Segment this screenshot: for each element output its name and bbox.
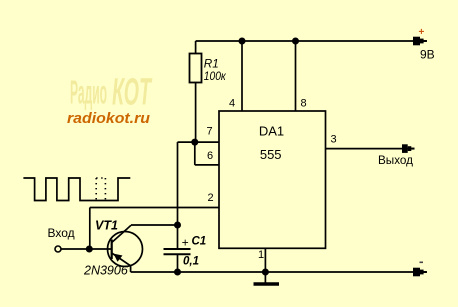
wire collector — [131, 224, 178, 226]
svg-text:КОТ: КОТ — [112, 72, 152, 114]
input terminal — [55, 246, 61, 252]
wire node to collector/C1 — [177, 142, 179, 249]
wire R1 bottom — [195, 83, 197, 143]
node pin7 junction — [191, 139, 198, 146]
svg-text:4: 4 — [229, 98, 235, 110]
svg-text:2N3906: 2N3906 — [83, 264, 128, 278]
node input junction — [86, 246, 93, 253]
label - (minus) — [420, 261, 424, 263]
svg-text:R1: R1 — [204, 57, 219, 70]
input pulse waveform — [23, 178, 130, 201]
svg-text:6: 6 — [207, 150, 213, 162]
wire pin6 stub — [195, 164, 219, 166]
wire R1 top — [195, 41, 197, 54]
wire input to base — [61, 248, 111, 250]
wire top power rail — [196, 40, 427, 42]
svg-text:2: 2 — [208, 192, 214, 204]
svg-text:1: 1 — [258, 249, 264, 261]
transistor VT1 (2N3906, PNP) — [108, 225, 143, 272]
node collector junction — [174, 222, 181, 229]
wire pin4 — [241, 41, 243, 111]
svg-text:555: 555 — [260, 147, 282, 162]
resistor R1 — [190, 54, 202, 83]
wire ground rail — [131, 271, 427, 273]
wire pin7 to pin6 — [194, 142, 196, 165]
wire pin1 — [264, 248, 266, 272]
IC DA1 (555 timer) — [219, 111, 326, 248]
node rail junction (pin 8) — [292, 38, 299, 45]
svg-text:Выход: Выход — [378, 154, 413, 167]
arrow minus rail — [413, 268, 427, 277]
svg-text:8: 8 — [301, 98, 307, 110]
arrow output — [402, 144, 415, 153]
capacitor C1 — [164, 249, 191, 272]
svg-text:9В: 9В — [420, 48, 435, 62]
node C1 ground junction — [174, 269, 181, 276]
svg-text:VT1: VT1 — [95, 219, 118, 233]
svg-text:+: + — [182, 236, 189, 250]
svg-text:Радио: Радио — [70, 74, 107, 111]
svg-text:3: 3 — [331, 134, 337, 146]
svg-text:0,1: 0,1 — [183, 256, 199, 268]
node rail junction (pin 4) — [239, 38, 246, 45]
watermark logo Радио КОТ — [70, 72, 152, 114]
wire pin3 output — [326, 148, 415, 150]
svg-text:7: 7 — [207, 126, 213, 138]
wire pin8 — [295, 41, 297, 111]
wire pin2 stub — [90, 207, 219, 209]
svg-text:DA1: DA1 — [259, 124, 284, 139]
wire pin7 stub — [178, 141, 220, 143]
svg-text:+: + — [419, 27, 425, 38]
arrow +9V — [413, 37, 427, 46]
svg-text:100к: 100к — [204, 70, 226, 83]
svg-text:Вход: Вход — [48, 226, 75, 240]
ground symbol — [254, 272, 280, 284]
wire pin2 down to input — [89, 208, 91, 250]
svg-text:radiokot.ru: radiokot.ru — [67, 111, 150, 127]
svg-text:C1: C1 — [192, 236, 207, 248]
node pin1 ground junction — [262, 269, 269, 276]
